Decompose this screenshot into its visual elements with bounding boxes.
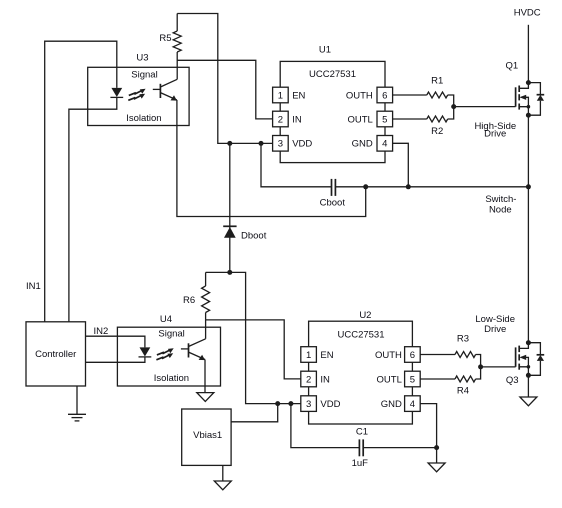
junction U2 VDD / C1 drop bbox=[288, 401, 293, 406]
gate driver U2 box bbox=[309, 321, 413, 424]
svg-text:Q1: Q1 bbox=[505, 60, 518, 71]
U4 light arrows bbox=[156, 348, 173, 360]
diode Dboot bbox=[223, 143, 236, 272]
U1 pin 2 box bbox=[273, 111, 289, 127]
svg-text:EN: EN bbox=[320, 350, 333, 361]
wire U4 collector up to R6 bottom bbox=[205, 320, 207, 339]
svg-text:2: 2 bbox=[306, 374, 311, 385]
svg-text:Node: Node bbox=[489, 204, 512, 215]
svg-text:UCC27531: UCC27531 bbox=[338, 329, 385, 340]
svg-text:OUTL: OUTL bbox=[347, 114, 372, 125]
svg-text:OUTH: OUTH bbox=[346, 90, 373, 101]
U2 pin 1 box bbox=[301, 347, 317, 363]
resistor R2 bbox=[393, 107, 454, 122]
U3 LED bbox=[110, 88, 123, 98]
junction C1 / GND bbox=[434, 445, 439, 450]
svg-text:R5: R5 bbox=[159, 33, 171, 44]
U3 light arrows bbox=[128, 89, 145, 101]
svg-text:R4: R4 bbox=[457, 385, 469, 396]
wire Dboot node across to R6 and down to U2 VDD bbox=[206, 272, 301, 403]
U1 pin 5 box bbox=[377, 111, 393, 127]
svg-text:VDD: VDD bbox=[320, 399, 340, 410]
svg-text:HVDC: HVDC bbox=[514, 7, 541, 18]
svg-text:Signal: Signal bbox=[131, 69, 157, 80]
U2 pin 3 box bbox=[301, 396, 317, 412]
svg-text:UCC27531: UCC27531 bbox=[309, 69, 356, 80]
U4 LED bbox=[139, 347, 152, 357]
U2 pin 4 box bbox=[405, 396, 421, 412]
U2 ground bbox=[428, 463, 445, 472]
U4 phototransistor bbox=[181, 339, 206, 360]
wire Q1 source down to switch node bbox=[527, 115, 529, 187]
svg-text:IN: IN bbox=[292, 114, 302, 125]
svg-text:IN1: IN1 bbox=[26, 281, 41, 292]
U2 pin 2 box bbox=[301, 371, 317, 387]
transistor Q3 bbox=[516, 340, 545, 378]
junction switch node bbox=[526, 184, 531, 189]
wire R5 top over and down to U1 VDD rail bbox=[177, 14, 273, 144]
wire U3 collector node to U1 IN pin bbox=[177, 60, 273, 119]
wire U4 LED cathode return to controller bbox=[86, 357, 145, 362]
svg-text:EN: EN bbox=[292, 90, 305, 101]
svg-text:OUTH: OUTH bbox=[375, 350, 402, 361]
Q3 ground bbox=[520, 397, 537, 406]
junction Dboot anode node bbox=[227, 270, 232, 275]
wire U2 GND pin to ground node bbox=[420, 404, 436, 463]
junction R3/R4 gate node bbox=[478, 364, 483, 369]
svg-text:U4: U4 bbox=[160, 314, 172, 325]
svg-text:OUTL: OUTL bbox=[377, 374, 402, 385]
resistor R3 bbox=[420, 352, 480, 367]
svg-text:U1: U1 bbox=[319, 45, 331, 56]
resistor R5 bbox=[173, 14, 181, 80]
U1 pin 4 box bbox=[377, 136, 393, 152]
wire switch node down to Q3 drain bbox=[527, 187, 529, 343]
U2 pin 6 box bbox=[405, 347, 421, 363]
wire controller to U4 LED anode bbox=[86, 336, 145, 347]
U1 pin 3 box bbox=[273, 136, 289, 152]
resistor R4 bbox=[420, 367, 480, 382]
svg-text:C1: C1 bbox=[356, 426, 368, 437]
wire U3 emitter down to switch-node return bbox=[177, 100, 366, 217]
svg-text:IN: IN bbox=[320, 374, 330, 385]
U2 pin 5 box bbox=[405, 371, 421, 387]
svg-text:R6: R6 bbox=[183, 295, 195, 306]
net Switch-Node label bbox=[485, 194, 516, 215]
transistor Q1 bbox=[516, 80, 545, 118]
svg-text:4: 4 bbox=[410, 399, 415, 410]
svg-text:Cboot: Cboot bbox=[320, 198, 346, 209]
Vbias1 ground bbox=[214, 481, 231, 490]
junction U1 VDD / Dboot bbox=[227, 141, 232, 146]
svg-text:Isolation: Isolation bbox=[126, 113, 161, 124]
svg-text:Drive: Drive bbox=[484, 324, 506, 335]
svg-text:U2: U2 bbox=[359, 310, 371, 321]
wire Cboot right plate to switch-node rail bbox=[335, 186, 528, 188]
U1 pin 6 box bbox=[377, 87, 393, 103]
junction R1/R2 gate node bbox=[451, 104, 456, 109]
junction Cboot rail / U1 GND drop bbox=[406, 184, 411, 189]
junction U1 VDD / Cboot drop bbox=[259, 141, 264, 146]
gate driver U1 box bbox=[280, 61, 385, 162]
junction U2 VDD / Vbias riser bbox=[275, 401, 280, 406]
svg-text:6: 6 bbox=[410, 350, 415, 361]
svg-text:Controller: Controller bbox=[35, 349, 76, 360]
svg-text:Signal: Signal bbox=[158, 328, 184, 339]
wire HVDC down to Q1 drain bbox=[527, 25, 529, 83]
svg-text:3: 3 bbox=[306, 399, 311, 410]
U1 pin 1 box bbox=[273, 87, 289, 103]
svg-text:2: 2 bbox=[278, 114, 283, 125]
svg-text:1: 1 bbox=[306, 350, 311, 361]
svg-text:1: 1 bbox=[278, 90, 283, 101]
capacitor C1 bbox=[359, 439, 363, 456]
svg-text:GND: GND bbox=[352, 139, 373, 150]
svg-text:Isolation: Isolation bbox=[154, 373, 189, 384]
wire Vbias1 bottom to ground bbox=[222, 465, 224, 481]
svg-text:U3: U3 bbox=[136, 52, 148, 63]
svg-text:Vbias1: Vbias1 bbox=[193, 430, 222, 441]
U3 phototransistor bbox=[153, 79, 177, 100]
opto-coupler U4 box bbox=[117, 327, 220, 386]
svg-text:5: 5 bbox=[410, 374, 415, 385]
svg-text:R1: R1 bbox=[431, 76, 443, 87]
svg-text:GND: GND bbox=[381, 399, 402, 410]
Low-Side Drive label bbox=[475, 314, 515, 335]
svg-text:VDD: VDD bbox=[292, 139, 312, 150]
wire IN1: controller top-left up and over to U3 LED anode bbox=[45, 41, 117, 322]
wire VDD rail down to Cboot left plate bbox=[261, 143, 332, 186]
svg-text:Q3: Q3 bbox=[506, 375, 519, 386]
High-Side Drive label bbox=[474, 121, 516, 140]
junction Cboot rail / emitter return bbox=[363, 184, 368, 189]
svg-text:5: 5 bbox=[382, 114, 387, 125]
resistor R6 bbox=[202, 272, 210, 320]
capacitor Cboot bbox=[332, 179, 336, 196]
svg-text:1uF: 1uF bbox=[352, 458, 369, 469]
wire U4 emitter down to ground bbox=[204, 360, 206, 393]
svg-text:6: 6 bbox=[382, 90, 387, 101]
wire U2 VDD down to C1 left plate bbox=[291, 404, 360, 448]
wire C1 right plate to ground node bbox=[363, 447, 436, 449]
svg-text:R3: R3 bbox=[457, 334, 469, 345]
svg-text:4: 4 bbox=[382, 139, 387, 150]
wire U1 GND pin down to switch-node rail bbox=[393, 143, 409, 187]
source Vbias1 box bbox=[182, 409, 231, 465]
resistor R1 bbox=[393, 92, 454, 107]
wire Q3 source down to ground bbox=[527, 375, 529, 397]
Controller box bbox=[26, 322, 86, 386]
controller ground bbox=[68, 386, 86, 421]
wire R6 bottom / U4 collector to U2 IN pin bbox=[206, 320, 301, 379]
svg-text:Dboot: Dboot bbox=[241, 230, 267, 241]
opto-coupler U3 box bbox=[88, 67, 189, 125]
svg-text:Drive: Drive bbox=[484, 129, 506, 140]
wire U3 LED cathode return to controller bbox=[69, 97, 117, 321]
wire gate node to Q1 gate bbox=[454, 106, 516, 108]
svg-text:R2: R2 bbox=[431, 126, 443, 137]
U4 ground bbox=[197, 393, 214, 402]
wire Vbias1 output to U2 VDD rail bbox=[231, 404, 278, 422]
wire gate node to Q3 gate bbox=[481, 366, 516, 368]
svg-text:3: 3 bbox=[278, 139, 283, 150]
